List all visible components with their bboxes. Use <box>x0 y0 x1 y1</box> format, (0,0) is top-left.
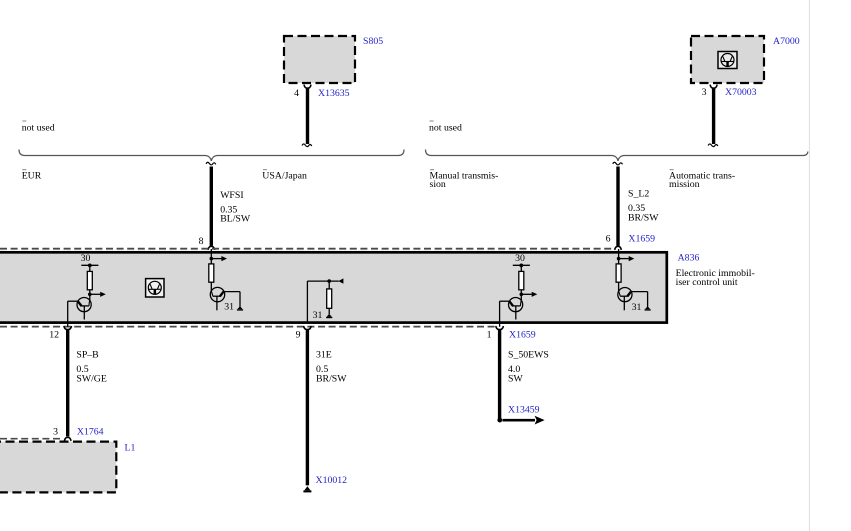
svg-text:4: 4 <box>294 88 299 99</box>
svg-text:31: 31 <box>313 310 323 321</box>
svg-text:9: 9 <box>296 329 301 340</box>
svg-text:USA/Japan: USA/Japan <box>262 171 307 182</box>
svg-text:BR/SW: BR/SW <box>316 373 347 384</box>
svg-text:S_50EWS: S_50EWS <box>508 349 549 360</box>
svg-text:3: 3 <box>702 87 707 98</box>
svg-text:not used: not used <box>22 123 55 134</box>
svg-text:X13459: X13459 <box>508 405 540 416</box>
svg-text:BR/SW: BR/SW <box>628 212 659 223</box>
svg-text:X1764: X1764 <box>77 427 104 438</box>
svg-text:S805: S805 <box>363 36 383 47</box>
svg-text:31: 31 <box>224 302 234 313</box>
svg-text:3: 3 <box>53 427 58 438</box>
svg-text:X1659: X1659 <box>628 234 655 245</box>
svg-text:A7000: A7000 <box>773 36 800 47</box>
svg-text:EUR: EUR <box>22 171 42 182</box>
svg-text:not used: not used <box>429 123 462 134</box>
svg-text:SW/GE: SW/GE <box>76 373 106 384</box>
svg-text:sion: sion <box>430 179 446 190</box>
svg-text:8: 8 <box>199 236 204 247</box>
svg-text:30: 30 <box>515 253 525 264</box>
svg-text:X1659: X1659 <box>509 329 536 340</box>
svg-text:iser control unit: iser control unit <box>676 277 738 288</box>
svg-text:S_L2: S_L2 <box>628 189 649 200</box>
svg-text:31: 31 <box>632 302 642 313</box>
svg-text:SW: SW <box>508 373 523 384</box>
svg-text:30: 30 <box>81 253 91 264</box>
svg-text:12: 12 <box>49 329 59 340</box>
svg-text:6: 6 <box>606 234 611 245</box>
svg-text:SP–B: SP–B <box>76 349 99 360</box>
svg-text:X13635: X13635 <box>318 88 350 99</box>
svg-text:31E: 31E <box>316 349 332 360</box>
svg-text:WFSI: WFSI <box>220 190 243 201</box>
svg-text:X70003: X70003 <box>725 87 757 98</box>
svg-text:X10012: X10012 <box>316 475 348 486</box>
svg-text:BL/SW: BL/SW <box>220 214 251 225</box>
svg-text:L1: L1 <box>125 443 136 454</box>
svg-text:mission: mission <box>669 179 700 190</box>
svg-text:A836: A836 <box>678 253 700 264</box>
svg-text:1: 1 <box>487 329 492 340</box>
